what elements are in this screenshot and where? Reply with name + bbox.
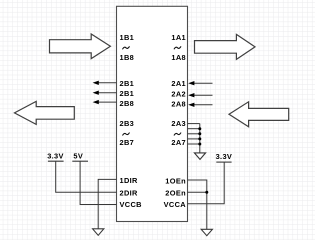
junction dot 2A7: [198, 143, 201, 146]
power symbol 5V: [72, 152, 88, 162]
power symbol 3.3V right: [216, 152, 233, 162]
pin label tilde 1A group: [174, 47, 181, 49]
svg-text:5V: 5V: [73, 152, 83, 161]
junction dot 2A4: [198, 127, 201, 130]
svg-text:2DIR: 2DIR: [120, 189, 139, 198]
svg-text:3.3V: 3.3V: [47, 152, 64, 161]
wire 2A2 input: [188, 93, 212, 97]
ground symbol for OEn: [201, 229, 212, 235]
wire 2A4 to ground bus: [188, 128, 200, 130]
junction dot 2A5: [198, 132, 201, 135]
wire 2A5 to ground bus: [188, 133, 200, 135]
svg-text:2A2: 2A2: [171, 89, 186, 98]
wire 2B8 output: [93, 100, 117, 104]
svg-text:1DIR: 1DIR: [120, 176, 139, 185]
svg-text:VCCB: VCCB: [120, 200, 142, 209]
wire 2OEn to OEn net: [188, 191, 207, 193]
svg-text:2A3: 2A3: [171, 119, 186, 128]
wire 2B1 output (second): [93, 91, 117, 95]
svg-text:2B1: 2B1: [120, 79, 135, 88]
ground symbol for 2A3-2A7 bus: [194, 153, 205, 160]
wire 3.3V to 2DIR: [56, 161, 117, 192]
svg-text:2A8: 2A8: [171, 99, 186, 108]
svg-text:3.3V: 3.3V: [216, 152, 233, 161]
wire ground bus vertical: [199, 124, 201, 153]
IC U1 body: [117, 6, 188, 221]
svg-text:2A7: 2A7: [171, 138, 186, 147]
pin label tilde 2A group: [174, 133, 181, 135]
svg-text:2OEn: 2OEn: [165, 189, 186, 198]
svg-text:2B3: 2B3: [120, 119, 135, 128]
bus arrow into 1B1-1B8: [50, 34, 111, 59]
wire 2A1 input: [188, 81, 212, 85]
wire 2A7 to ground bus: [188, 143, 200, 145]
wire VCCA to 3.3V: [188, 162, 225, 204]
junction dot OEn net: [205, 191, 208, 194]
svg-text:2B1: 2B1: [120, 89, 135, 98]
wire 5V to VCCB: [80, 161, 116, 204]
svg-text:2A1: 2A1: [171, 79, 186, 88]
wire 2A8 input: [188, 103, 212, 107]
bus arrow out of 1A1-1A8: [195, 34, 256, 59]
svg-text:1B1: 1B1: [120, 33, 135, 42]
wire 2B1 output: [93, 81, 117, 85]
wire 1OEn to ground: [188, 180, 207, 229]
svg-text:2B7: 2B7: [120, 138, 135, 147]
wire 2A6 to ground bus: [188, 138, 200, 140]
svg-text:1OEn: 1OEn: [165, 176, 186, 185]
power symbol 3.3V left: [47, 152, 64, 162]
svg-text:1A1: 1A1: [171, 33, 186, 42]
wire 2A3 to ground bus: [188, 123, 200, 125]
bus arrow into 2A1-2A8: [229, 102, 289, 127]
svg-text:VCCA: VCCA: [164, 200, 187, 209]
svg-text:2B8: 2B8: [120, 99, 135, 108]
svg-text:1B8: 1B8: [120, 53, 135, 62]
svg-text:1A8: 1A8: [171, 53, 186, 62]
junction dot 2A6: [198, 137, 201, 140]
wire 1DIR to ground: [98, 179, 116, 228]
ground symbol for 1DIR: [93, 229, 104, 236]
pin label tilde 2B group: [123, 133, 130, 135]
bus arrow out of 2B1-2B8: [15, 101, 75, 124]
pin label tilde 1B group: [123, 47, 130, 49]
